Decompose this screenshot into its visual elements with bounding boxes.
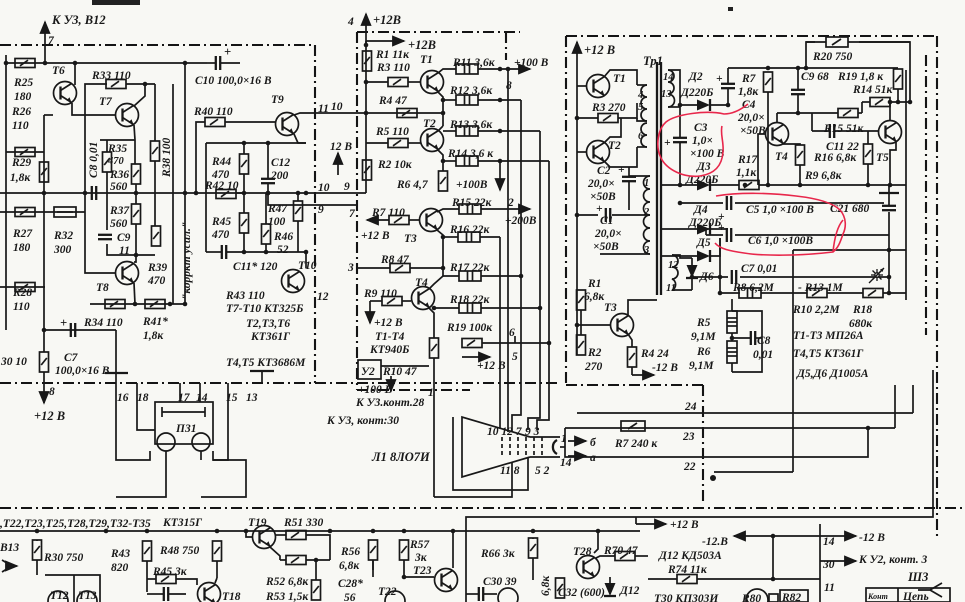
svg-text:R17 22к: R17 22к: [449, 262, 491, 274]
node +12V top arrow: [347, 13, 401, 45]
wire T6 emitter to T7 base: [72, 103, 115, 115]
svg-text:180: 180: [14, 91, 32, 103]
svg-text:R18: R18: [852, 304, 872, 316]
svg-text:КТ940Б: КТ940Б: [369, 344, 409, 356]
svg-text:С6 1,0 ×100В: С6 1,0 ×100В: [748, 235, 813, 247]
resistor R30 750: [33, 540, 42, 560]
svg-text:10: 10: [331, 101, 343, 113]
main rail: [0, 530, 640, 532]
svg-text:270: 270: [584, 361, 603, 373]
svg-text:R6 4,7: R6 4,7: [396, 179, 429, 191]
svg-text:Т2: Т2: [423, 118, 436, 130]
svg-text:Т2: Т2: [608, 140, 621, 152]
svg-text:R7 110: R7 110: [371, 207, 405, 219]
svg-text:R44: R44: [211, 156, 231, 168]
svg-text:Т9: Т9: [271, 94, 284, 106]
svg-text:R19 1,8 к: R19 1,8 к: [837, 71, 884, 83]
resistor R14: [456, 156, 478, 166]
svg-text:+12В: +12В: [408, 38, 436, 52]
resistor R36: [132, 164, 141, 184]
wire R40: [196, 122, 205, 193]
CRT grid electrodes dashed: [502, 437, 542, 457]
svg-text:КТ361Г: КТ361Г: [250, 331, 290, 343]
svg-text:Д5: Д5: [696, 237, 711, 249]
svg-text:R9 110: R9 110: [363, 288, 397, 300]
svg-text:R16 6,8к: R16 6,8к: [813, 152, 857, 164]
wire CRT feed bundle: [499, 237, 501, 428]
svg-text:Т7-Т10 КТ325Б: Т7-Т10 КТ325Б: [226, 303, 303, 315]
svg-text:18: 18: [137, 392, 149, 404]
capacitor C12: [261, 179, 275, 183]
wire x773: [772, 536, 774, 579]
wire x135: [134, 140, 136, 164]
capacitor C11: [222, 245, 226, 259]
wire K U3 stub: [44, 45, 46, 63]
svg-text:12: 12: [317, 291, 329, 303]
svg-text:R5 110: R5 110: [375, 126, 409, 138]
CRT cathode: [553, 440, 557, 454]
svg-text:820: 820: [111, 562, 129, 574]
svg-text:R10 47: R10 47: [382, 366, 418, 378]
svg-text:В13: В13: [0, 542, 19, 554]
wire CRT pin1 to loop: [560, 446, 565, 448]
wire R46 R47: [265, 193, 267, 224]
svg-text:12 В: 12 В: [330, 141, 352, 153]
resistor R9 6.8k: [796, 145, 805, 165]
svg-text:С32 (600): С32 (600): [558, 587, 605, 599]
svg-text:+12 В: +12 В: [670, 519, 699, 531]
resistor R2: [363, 160, 372, 180]
svg-text:+: +: [596, 203, 603, 215]
diode D12 small: [604, 583, 616, 596]
svg-text:Т3: Т3: [604, 302, 617, 314]
svg-text:R26: R26: [11, 106, 31, 118]
resistor R37: [132, 204, 141, 224]
capacitor C10: [216, 56, 220, 70]
svg-text:×50В: ×50В: [740, 125, 766, 137]
transistor T7: [116, 104, 139, 127]
resistor R1: [363, 51, 372, 71]
wire pin7 row: [315, 204, 357, 206]
svg-text:-12 В: -12 В: [859, 532, 885, 544]
wire R29: [43, 115, 45, 193]
wire T7 emitter: [134, 125, 135, 140]
svg-text:К У3, В12: К У3, В12: [51, 13, 106, 27]
svg-text:6,8к: 6,8к: [540, 575, 552, 596]
svg-text:R51 330: R51 330: [283, 517, 324, 529]
svg-text:R3 270: R3 270: [591, 102, 626, 114]
transistor T18: [198, 583, 221, 602]
transformer primary winding: [641, 85, 647, 147]
capacitor C1: [606, 208, 610, 222]
svg-text:52: 52: [277, 244, 289, 256]
svg-text:R42 10: R42 10: [204, 180, 239, 192]
svg-text:R12 3,6к: R12 3,6к: [449, 85, 493, 97]
svg-text:Д2: Д2: [688, 71, 703, 83]
sub frame R44: [206, 142, 306, 144]
wire R38: [154, 84, 156, 141]
node K U3,V12 arrow: [45, 13, 106, 47]
transistor bottom mid: [498, 588, 518, 602]
resistor R7 240k: [621, 421, 645, 431]
transistor T2: [587, 141, 610, 164]
svg-text:560: 560: [110, 181, 128, 193]
svg-text:R5: R5: [696, 317, 711, 329]
svg-text:4: 4: [347, 16, 354, 28]
transistor T8: [116, 262, 139, 285]
resistor R4: [397, 109, 417, 118]
svg-text:Т30 КП303И: Т30 КП303И: [654, 593, 719, 602]
svg-text:С8: С8: [757, 335, 771, 347]
svg-text:R52 6,8к: R52 6,8к: [265, 576, 309, 588]
svg-text:Д220Б: Д220Б: [680, 87, 713, 99]
right block inner solid right border: [905, 70, 907, 300]
svg-text:+12В: +12В: [373, 13, 401, 27]
svg-text:R2 10к: R2 10к: [377, 159, 413, 171]
red annotation loop around C3: [658, 104, 748, 176]
svg-text:10: 10: [318, 182, 330, 194]
svg-text:R37: R37: [109, 205, 130, 217]
svg-text:560: 560: [110, 218, 128, 230]
wire C12: [267, 143, 269, 179]
svg-text:R48 750: R48 750: [159, 545, 200, 557]
delay line winding circles: [157, 433, 175, 451]
svg-text:С10 100,0×16 В: С10 100,0×16 В: [195, 75, 272, 87]
wire T10: [305, 252, 307, 268]
wire x107: [106, 140, 108, 152]
svg-text:+12 В: +12 В: [477, 360, 506, 372]
resistor R82: [780, 590, 808, 602]
svg-text:1,8к: 1,8к: [10, 172, 31, 184]
wire T6 collector: [74, 63, 76, 85]
svg-text:110: 110: [13, 301, 30, 313]
svg-text:R38 100: R38 100: [161, 137, 173, 178]
svg-text:-12 В: -12 В: [652, 362, 678, 374]
svg-text:R56: R56: [340, 546, 360, 558]
wire left rail: [576, 60, 578, 355]
middle block dash-dot left border: [356, 32, 358, 390]
wire b a arrows: [568, 440, 586, 442]
svg-text:5 2: 5 2: [535, 465, 550, 477]
wire divider x185: [184, 63, 186, 304]
svg-text:+12 В: +12 В: [374, 317, 403, 329]
resistor R2 270: [577, 335, 586, 355]
wire T9 emitter: [294, 134, 306, 143]
svg-text:11: 11: [824, 582, 835, 594]
svg-text:+: +: [716, 73, 723, 85]
svg-text:56: 56: [344, 592, 356, 602]
wire 11-10 rail y113: [357, 112, 443, 114]
wire T9 collector to border: [294, 113, 357, 115]
svg-text:R43 110: R43 110: [225, 290, 265, 302]
wire T7 collector: [134, 84, 145, 106]
wire T5: [889, 102, 891, 120]
capacitor C9: [98, 235, 112, 239]
resistor R13: [456, 126, 478, 136]
red annotation loop around C5 C6: [715, 193, 845, 255]
resistor R29: [40, 162, 49, 182]
wire C9 loop: [106, 193, 108, 230]
svg-text:R18 22к: R18 22к: [449, 294, 491, 306]
svg-text:Т5: Т5: [876, 152, 889, 164]
wire T8 emitter down: [134, 283, 135, 304]
svg-text:С2: С2: [597, 165, 611, 177]
resistor R18 680k: [863, 289, 883, 298]
svg-text:КТ315Г: КТ315Г: [162, 517, 202, 529]
svg-text:R14 51к: R14 51к: [852, 84, 894, 96]
svg-text:16: 16: [117, 392, 129, 404]
wire R7 loop: [565, 428, 868, 457]
svg-text:5: 5: [512, 351, 518, 363]
svg-text:R3 110: R3 110: [376, 62, 410, 74]
transistor T3: [611, 314, 634, 337]
resistor R15: [459, 204, 481, 214]
svg-text:+: +: [618, 164, 625, 176]
svg-text:20,0×: 20,0×: [594, 228, 622, 240]
svg-text:Л1 8ЛО7И: Л1 8ЛО7И: [371, 450, 431, 464]
transistor T4: [766, 123, 789, 146]
svg-text:Цепь: Цепь: [902, 591, 929, 602]
svg-text:4: 4: [637, 90, 643, 101]
resistor R27: [15, 208, 35, 217]
svg-text:R29: R29: [11, 157, 31, 169]
wires P31 pins: [116, 383, 150, 460]
node dots: [4, 61, 9, 66]
right block dash-dot vertical x703: [702, 385, 704, 505]
wire T2 emitter chain: [438, 150, 443, 171]
left block dash-dot top border: [0, 44, 315, 46]
svg-text:200: 200: [270, 170, 289, 182]
svg-text:R11 3,6к: R11 3,6к: [452, 57, 496, 69]
svg-text:8: 8: [506, 80, 512, 92]
svg-text:R6: R6: [696, 346, 711, 358]
label -12V left arrow: [734, 535, 790, 537]
svg-text:20,0×: 20,0×: [587, 178, 615, 190]
label -12V arrow: [632, 374, 654, 376]
svg-text:1,8к: 1,8к: [738, 86, 759, 98]
svg-text:Т1-Т4: Т1-Т4: [375, 331, 405, 343]
wire T7 frame: [85, 84, 107, 115]
svg-text:Т8: Т8: [96, 282, 109, 294]
svg-text:R10 2,2М: R10 2,2М: [792, 304, 840, 316]
svg-text:С28*: С28*: [338, 578, 363, 590]
capacitor C4: [721, 84, 735, 88]
svg-text:С7: С7: [64, 352, 79, 364]
svg-text:Т22: Т22: [378, 586, 397, 598]
wire y304: [90, 303, 185, 305]
svg-text:8: 8: [49, 386, 55, 398]
transistors T12 T13 box: [45, 575, 100, 602]
resistor R6: [439, 171, 448, 191]
bottom strip dash-dot separator: [0, 507, 965, 509]
wire T4 collector: [776, 113, 778, 122]
svg-text:Т1: Т1: [420, 54, 433, 66]
resistor R4 24: [628, 347, 637, 367]
svg-text:5: 5: [638, 102, 643, 113]
wire x44 down to +12V: [43, 193, 45, 352]
svg-text:Т3: Т3: [404, 233, 417, 245]
wire y113: [777, 112, 838, 114]
transistor T10: [282, 270, 305, 293]
svg-text:С12: С12: [271, 157, 290, 169]
svg-text:9,1М: 9,1М: [689, 360, 714, 372]
transistor T22: [385, 591, 405, 602]
svg-text:С9: С9: [117, 232, 131, 244]
svg-text:R32: R32: [53, 230, 73, 242]
svg-text:Т10: Т10: [298, 260, 317, 272]
svg-text:R4 47: R4 47: [378, 95, 408, 107]
svg-text:11: 11: [318, 103, 329, 115]
transformer core: [656, 62, 658, 295]
wire T3 emitter chain: [437, 230, 443, 268]
wire left vertical: [5, 55, 7, 330]
delay line P31 box: [155, 402, 213, 444]
svg-text:+: +: [664, 137, 671, 149]
svg-text:R13 3,6к: R13 3,6к: [449, 119, 493, 131]
resistor R39: [152, 226, 161, 246]
svg-text:R33 110: R33 110: [91, 70, 131, 82]
wire +100V pin8: [478, 68, 530, 70]
resistor R18: [459, 303, 481, 313]
wire line24: [577, 412, 913, 414]
wire R42 joins: [236, 192, 244, 194]
transistor T23: [435, 569, 458, 592]
svg-text:R1: R1: [587, 278, 601, 290]
connector table: [866, 588, 950, 602]
svg-text:R16 22к: R16 22к: [449, 224, 491, 236]
label +12V down arrow: [369, 301, 371, 323]
wire main left rail: [365, 41, 367, 193]
trimmer star icon: [869, 268, 884, 283]
svg-text:6: 6: [509, 327, 515, 339]
wire to T8: [134, 255, 136, 262]
wire T4 collector: [443, 268, 459, 276]
svg-text:,Т22,Т23,Т25,Т28,Т29,Т32-Т35: ,Т22,Т23,Т25,Т28,Т29,Т32-Т35: [0, 518, 151, 530]
label 12V with arrow: [337, 153, 339, 175]
svg-text:13: 13: [246, 392, 258, 404]
svg-text:300: 300: [53, 244, 72, 256]
svg-text:С11* 120: С11* 120: [233, 261, 278, 273]
bottom strip solid line: [466, 370, 933, 602]
wire line22: [714, 471, 793, 473]
transistor T4: [412, 287, 435, 310]
resistor R51 330: [276, 534, 286, 536]
label +12V arrow: [636, 523, 666, 525]
svg-text:+100В: +100В: [456, 179, 488, 191]
wire x720 column: [719, 238, 721, 293]
svg-text:Т4: Т4: [415, 277, 428, 289]
wire top rail y68: [728, 67, 898, 69]
ground pin13: [250, 370, 274, 372]
svg-text:Т4,Т5 КТ3686М: Т4,Т5 КТ3686М: [226, 357, 306, 369]
page right dash-dot border: [936, 36, 938, 540]
resistor R38: [151, 141, 160, 161]
wire y252 bottom of subframe: [206, 251, 221, 253]
svg-text:Т6: Т6: [52, 65, 65, 77]
svg-text:3к: 3к: [414, 552, 428, 564]
resistor R44: [240, 154, 249, 174]
svg-text:9 3: 9 3: [525, 426, 540, 438]
svg-text:Т4,Т5 КТ361Г: Т4,Т5 КТ361Г: [793, 348, 863, 360]
resistor R46: [262, 224, 271, 244]
wire pin2 +200V: [437, 209, 459, 212]
wire CRT bottom returns: [434, 462, 512, 497]
resistor R41: [145, 300, 165, 309]
svg-text:470: 470: [147, 275, 166, 287]
transistor T9: [276, 113, 299, 136]
svg-text:R25: R25: [13, 77, 33, 89]
main wire y193: [0, 192, 366, 194]
svg-text:R34 110: R34 110: [83, 317, 123, 329]
svg-text:Т4: Т4: [775, 151, 788, 163]
svg-text:К У3.конт.28: К У3.конт.28: [355, 397, 425, 409]
unit box U2: [358, 360, 381, 379]
svg-text:R66 3к: R66 3к: [480, 548, 516, 560]
svg-text:11: 11: [666, 283, 676, 294]
wire R33 to R38: [126, 83, 155, 85]
svg-text:R7: R7: [741, 73, 757, 85]
right block dash-dot border bottom: [566, 384, 703, 386]
svg-text:R35: R35: [107, 143, 127, 155]
svg-text:а: а: [590, 452, 596, 464]
svg-text:+100 В: +100 В: [514, 57, 549, 69]
wire T23: [452, 531, 454, 568]
label +100V down: [390, 376, 392, 391]
svg-text:R7 240 к: R7 240 к: [614, 438, 658, 450]
resistor R10: [430, 338, 439, 358]
svg-text:0,01: 0,01: [753, 349, 773, 361]
svg-text:-12.В: -12.В: [702, 536, 728, 548]
svg-text:110: 110: [12, 120, 29, 132]
svg-text:14: 14: [663, 72, 674, 83]
wire T6 base: [44, 114, 53, 116]
wire T3 collector: [628, 300, 657, 316]
right block dash-dot border left: [565, 36, 567, 385]
svg-text:С9 68: С9 68: [801, 71, 829, 83]
svg-text:R46: R46: [273, 231, 293, 243]
svg-text:R4 24: R4 24: [640, 348, 669, 360]
svg-text:1,8к: 1,8к: [143, 330, 164, 342]
resistor R1 6.8k: [577, 290, 586, 310]
svg-text:R39: R39: [147, 262, 167, 274]
svg-text:К У3, конт:30: К У3, конт:30: [326, 415, 399, 427]
ground dash-dot bus with pins: [0, 382, 560, 384]
resistor R7: [367, 219, 389, 221]
svg-text:R28: R28: [12, 287, 32, 299]
svg-text:У2: У2: [361, 366, 375, 378]
resistor R7 1.8k: [764, 72, 773, 92]
svg-text:10 12 7: 10 12 7: [487, 426, 523, 438]
wire T1 emitter chain: [438, 92, 443, 126]
wire T2: [604, 118, 621, 143]
svg-text:С30 39: С30 39: [483, 576, 517, 588]
svg-text:1: 1: [561, 433, 567, 445]
svg-text:Т2,Т3,Т6: Т2,Т3,Т6: [246, 318, 290, 330]
svg-text:Д5,Д6 Д1005А: Д5,Д6 Д1005А: [796, 368, 869, 380]
svg-text:R40 110: R40 110: [193, 106, 233, 118]
svg-text:R15 22к: R15 22к: [451, 197, 493, 209]
svg-text:180: 180: [13, 242, 31, 254]
ground pin16: [105, 372, 128, 374]
svg-text:R45 3к: R45 3к: [152, 566, 188, 578]
page top-edge stray mark: [92, 0, 140, 5]
svg-text:23: 23: [682, 431, 695, 443]
svg-text:Т1: Т1: [613, 73, 626, 85]
svg-text:С7 0,01: С7 0,01: [741, 263, 777, 275]
right block dash-dot border top: [566, 35, 937, 37]
svg-text:R27: R27: [12, 228, 33, 240]
svg-text:R82: R82: [781, 592, 801, 602]
